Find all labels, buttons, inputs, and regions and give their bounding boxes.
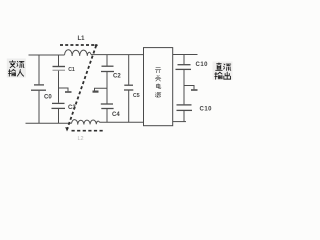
dashed diagonal L1-L2 bbox=[67, 46, 96, 130]
svg-text:L1: L1 bbox=[78, 36, 86, 42]
wire bottom rail right of L2 bbox=[100, 121, 144, 123]
dashed line L1 box top bbox=[60, 44, 97, 46]
流 bbox=[224, 64, 231, 70]
inductor L1 bbox=[65, 50, 91, 56]
电 bbox=[156, 84, 161, 89]
svg-text:C0: C0 bbox=[44, 95, 52, 101]
svg-text:C5: C5 bbox=[133, 93, 140, 99]
交 bbox=[9, 61, 15, 68]
text AC input 交流输入 bbox=[9, 61, 24, 77]
wire C10 link bbox=[183, 70, 185, 105]
capacitor C3 bbox=[52, 103, 66, 123]
svg-text:C3: C3 bbox=[68, 105, 76, 111]
svg-text:C10: C10 bbox=[196, 62, 209, 68]
入 bbox=[17, 70, 23, 77]
关 bbox=[155, 75, 161, 81]
wire C2-C4 link bbox=[106, 72, 108, 104]
wire C1-C3 link bbox=[58, 71, 60, 103]
输 bbox=[215, 72, 222, 79]
ground stub left bbox=[59, 88, 72, 92]
svg-text:C10: C10 bbox=[200, 107, 213, 113]
capacitor C1 bbox=[53, 55, 66, 70]
capacitor C10 top bbox=[176, 55, 192, 70]
capacitor C10 bottom bbox=[177, 105, 193, 122]
switching power supply box U1 bbox=[144, 48, 173, 126]
inductor L2 bbox=[72, 120, 100, 125]
svg-text:C1: C1 bbox=[68, 67, 75, 73]
wire output top bbox=[173, 54, 198, 56]
junction dot diagonal top bbox=[95, 44, 98, 46]
capacitor C2 bbox=[101, 55, 114, 72]
wire output bottom bbox=[173, 121, 186, 123]
输 bbox=[9, 69, 16, 76]
wire top rail right of L1 bbox=[91, 54, 144, 56]
capacitor C0 bbox=[31, 55, 46, 123]
ground stub right bbox=[184, 86, 198, 91]
源 bbox=[155, 93, 161, 98]
text DC output 直流输出 bbox=[215, 63, 231, 79]
开 bbox=[155, 68, 161, 73]
dashed line L2 box bottom bbox=[72, 130, 105, 132]
直 bbox=[216, 63, 222, 70]
svg-text:L2: L2 bbox=[78, 136, 84, 142]
流 bbox=[17, 61, 24, 67]
capacitor C5 bbox=[124, 55, 133, 123]
ground stub mid bbox=[93, 88, 108, 91]
text block DC output bg bbox=[213, 62, 233, 81]
svg-text:C4: C4 bbox=[112, 112, 120, 118]
wire bottom rail left bbox=[26, 122, 72, 124]
出 bbox=[224, 72, 231, 79]
text box label 开关电源 bbox=[155, 68, 161, 98]
arrowhead at diagonal end bbox=[65, 127, 69, 131]
wire top rail left bbox=[29, 54, 65, 56]
svg-text:C2: C2 bbox=[113, 74, 121, 80]
text block AC input bg bbox=[7, 59, 26, 78]
capacitor C4 bbox=[101, 104, 114, 122]
